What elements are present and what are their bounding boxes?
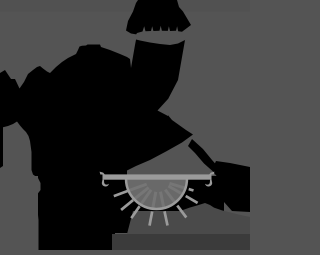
right bar end lip [209, 172, 214, 175]
disc outline [126, 179, 187, 209]
horizontal bar [103, 174, 212, 179]
big black silhouette mass (mountain + diagonal band) [0, 0, 193, 176]
black sliver on left edge over peninsula [0, 125, 3, 168]
inner spokes [128, 183, 189, 211]
left curl [102, 180, 109, 187]
rays [114, 189, 198, 226]
top strip (slightly darker canvas continuation) [0, 0, 250, 12]
right black blob [214, 161, 251, 212]
bottom-right dark strip [112, 234, 250, 250]
left bar end lip [100, 172, 105, 175]
gray left peninsula / column [0, 122, 41, 251]
right curl [205, 180, 212, 187]
gray notch triangle in band edge [158, 99, 169, 116]
black background behind icon disc and rays [105, 176, 224, 212]
ground band below icon [127, 203, 250, 234]
lower-left black block with bottom strip [38, 170, 134, 250]
gray canvas background [0, 0, 250, 250]
right thin black wedge diagonal [188, 139, 224, 177]
gray zigzag sliver between bowtie and band [134, 25, 196, 45]
sunset icon [100, 172, 215, 226]
